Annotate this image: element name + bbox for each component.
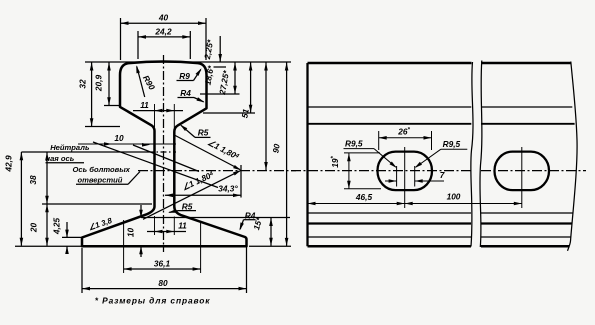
svg-text:* Размеры для справок: * Размеры для справок	[95, 296, 211, 306]
svg-text:100: 100	[447, 192, 461, 202]
svg-text:10: 10	[114, 133, 124, 143]
svg-text:отверстий: отверстий	[78, 175, 123, 184]
svg-text:R9,5: R9,5	[443, 139, 461, 149]
svg-text:24,2: 24,2	[154, 27, 172, 37]
svg-text:20: 20	[29, 223, 39, 234]
svg-text:4,25: 4,25	[52, 218, 62, 236]
svg-text:Ось болтовых: Ось болтовых	[73, 165, 131, 174]
svg-text:7: 7	[440, 170, 445, 180]
svg-text:R9,5: R9,5	[345, 138, 363, 148]
svg-text:11: 11	[140, 100, 149, 110]
svg-text:R5: R5	[198, 128, 209, 138]
svg-text:R4: R4	[245, 210, 256, 220]
svg-text:20,9: 20,9	[94, 75, 104, 93]
svg-text:40: 40	[158, 13, 169, 23]
svg-text:34,3°: 34,3°	[218, 184, 238, 194]
svg-text:R9: R9	[179, 71, 190, 81]
svg-text:10: 10	[126, 228, 136, 238]
svg-text:32: 32	[78, 79, 88, 89]
svg-text:Нейтраль: Нейтраль	[50, 143, 90, 152]
svg-text:R4: R4	[180, 88, 191, 98]
svg-text:42,9: 42,9	[4, 155, 14, 173]
svg-text:46,5: 46,5	[355, 192, 373, 202]
svg-text:38: 38	[28, 175, 38, 185]
svg-text:80: 80	[158, 278, 168, 288]
svg-text:36,1: 36,1	[154, 259, 171, 269]
svg-text:ная ось: ная ось	[46, 154, 75, 163]
svg-text:11: 11	[178, 221, 187, 231]
